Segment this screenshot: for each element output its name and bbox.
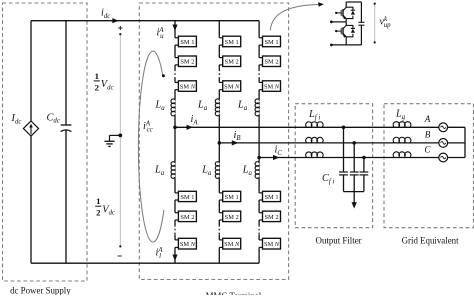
- wire: rail SM2 to SMN upper col 1 (with ellipsis): [174, 65, 176, 70]
- svg-text:SM 1: SM 1: [264, 39, 278, 46]
- current iA arrow: [187, 125, 194, 130]
- inductor La upper arm col 1: [171, 99, 175, 116]
- svg-text:Grid Equivalent: Grid Equivalent: [402, 235, 459, 245]
- node: filter tap phase A: [342, 126, 346, 130]
- diode (antiparallel): [346, 7, 353, 18]
- wire: rail SM2 to SMN upper col 2 (with ellipsis): [218, 65, 220, 70]
- capacitor Cdc branch wires: [65, 21, 67, 125]
- wire: rail between SM1-SM2 upper col 1: [174, 45, 176, 58]
- submodule SMN lower arm col 3: [263, 238, 281, 249]
- inductor Lfi phase A: [306, 122, 323, 128]
- wire: rail SMN to dc bus negative col 2: [218, 247, 220, 263]
- inductor La upper arm col 3: [255, 99, 259, 116]
- submodule SM1 lower arm col 1: [178, 191, 196, 201]
- current iC arrow: [273, 155, 280, 160]
- svg-text:SM 2: SM 2: [225, 59, 239, 66]
- plus sign (top of Vdc measure): [118, 27, 122, 29]
- current source Idc (diamond with up arrow): [23, 121, 38, 136]
- terminal: SM output (mid): [330, 21, 333, 24]
- submodule SMN lower arm col 2: [223, 238, 241, 249]
- svg-text:1: 1: [95, 71, 99, 81]
- wire: phase A line: [175, 126, 439, 128]
- inductor Lfi phase B: [306, 137, 323, 143]
- capacitor Cdc: [61, 124, 72, 126]
- submodule SM1 lower arm col 2: [223, 191, 241, 201]
- wire: rail between SM1-SM2 upper col 2: [218, 45, 220, 58]
- wire: lower inductor to SM1 lower col 2: [218, 178, 220, 193]
- svg-text:B: B: [425, 130, 431, 140]
- capacitor Cfi phase A: [339, 171, 348, 173]
- wire: upper arm rail col 3 (dc bus to SM1): [258, 21, 260, 38]
- wire: source C to neutral bus: [448, 157, 465, 159]
- capacitor Cfi phase B: [350, 171, 359, 173]
- svg-text:SM 1: SM 1: [180, 194, 194, 201]
- minus sign (bottom of Vdc measure): [118, 255, 122, 257]
- current il^A arrow (lower arm col 1): [172, 255, 177, 262]
- wire: rail between SM1-SM2 upper col 3: [258, 45, 260, 58]
- boundary box: Output Filter region: [295, 104, 372, 228]
- inductor La lower arm col 1: [171, 162, 175, 179]
- svg-text:1: 1: [96, 196, 100, 206]
- wire: phase C line: [259, 157, 439, 159]
- wire: lower inductor to SM1 lower col 3: [258, 178, 260, 193]
- wire: phase B line: [219, 142, 438, 144]
- svg-text:SM N: SM N: [180, 83, 196, 90]
- wire: SM detail midpoint node: [345, 19, 347, 26]
- wire: upper arm rail col 2 (dc bus to SM1): [218, 21, 220, 38]
- svg-text:SM N: SM N: [264, 241, 280, 248]
- wire: rail SMN to arm inductor upper col 2: [218, 90, 220, 100]
- node: filter tap phase B: [352, 141, 356, 145]
- svg-text:SM 1: SM 1: [225, 194, 239, 201]
- submodule SM <N upper arm col 2: [223, 81, 241, 92]
- capacitor (SM detail): [358, 21, 364, 23]
- terminal: SM output (bottom): [330, 44, 333, 47]
- submodule SM2 lower arm col 1: [178, 211, 196, 222]
- svg-text:SM 1: SM 1: [264, 194, 278, 201]
- wire: dc bus positive (top): [31, 20, 259, 22]
- current iB arrow: [232, 140, 239, 145]
- svg-text:SM 2: SM 2: [264, 214, 278, 221]
- wire: rail between SM1-SM2 lower col 3: [258, 200, 260, 213]
- svg-text:SM 2: SM 2: [225, 214, 239, 221]
- wire: source A to neutral bus: [448, 126, 465, 128]
- svg-text:SM 2: SM 2: [180, 214, 194, 221]
- wire: tap to capacitor Cfi phase C: [363, 158, 365, 173]
- measurement line v_up (SM detail): [374, 3, 376, 43]
- current source Idc branch wires: [30, 21, 32, 121]
- inductor Lfi phase C: [306, 152, 323, 158]
- wire: dc bus negative (bottom): [31, 262, 259, 264]
- node: filter tap phase C: [362, 156, 366, 160]
- wire: rail SMN to dc bus negative col 3: [258, 247, 260, 263]
- submodule SMN lower arm col 1: [178, 238, 196, 249]
- svg-text:A: A: [424, 114, 431, 124]
- svg-text:SM N: SM N: [224, 241, 240, 248]
- wire: SM detail capacitor branch: [360, 2, 362, 22]
- wire: inductor to phase node col 1: [174, 116, 176, 128]
- submodule SM 22 upper arm col 2: [223, 56, 241, 67]
- capacitor Cfi phase C: [360, 171, 369, 173]
- boundary box: Grid Equivalent region: [384, 104, 474, 228]
- svg-text:SM 1: SM 1: [225, 39, 239, 46]
- svg-text:2: 2: [95, 82, 100, 92]
- submodule SM2 lower arm col 2: [223, 211, 241, 222]
- svg-text:SM N: SM N: [264, 83, 280, 90]
- submodule SM 22 upper arm col 3: [263, 56, 281, 67]
- boundary box: dc Power Supply region: [3, 3, 88, 281]
- diode (antiparallel): [346, 25, 353, 36]
- circulating current icc^A arc: [138, 51, 164, 242]
- wire: inductor to phase node col 3: [258, 116, 260, 158]
- inductor Lg phase A: [393, 122, 411, 128]
- wire: rail SM2 to SMN lower col 3 (with ellipsis): [258, 220, 260, 225]
- wire: source B to neutral bus: [448, 142, 465, 144]
- boundary box: MMC Terminal region: [139, 3, 288, 280]
- node: phase junction col 2: [218, 141, 222, 145]
- current iu^A arrow (upper arm col 1): [172, 25, 177, 32]
- leader arrow from SM1 to submodule detail: [270, 5, 319, 31]
- submodule SM 11 upper arm col 2: [223, 36, 241, 47]
- wire: rail SM2 to SMN upper col 3 (with ellipsis): [258, 65, 260, 70]
- submodule SM 22 upper arm col 1: [178, 56, 196, 67]
- svg-text:dc Power Supply: dc Power Supply: [10, 285, 71, 295]
- wire: SM detail top rail: [346, 1, 361, 3]
- svg-text:SM N: SM N: [180, 241, 196, 248]
- wire: rail between SM1-SM2 lower col 1: [174, 200, 176, 213]
- wire: phase node to lower inductor col 2: [218, 143, 220, 162]
- wire: tap to capacitor Cfi phase B: [353, 143, 355, 172]
- inductor La upper arm col 2: [215, 99, 219, 116]
- measurement line for Vdc halves (light): [119, 34, 121, 248]
- inductor La lower arm col 2: [215, 162, 219, 179]
- submodule SM 11 upper arm col 3: [263, 36, 281, 47]
- wire: rail SM2 to SMN lower col 2 (with ellipsis): [218, 220, 220, 225]
- wire: filter common to ground arrow: [353, 192, 355, 203]
- node: phase junction col 1: [173, 126, 177, 130]
- wire: lower emitter to bottom rail: [345, 37, 347, 45]
- ground arrow (filter star point): [352, 202, 357, 208]
- inductor La lower arm col 3: [255, 162, 259, 179]
- ac source phase A: [439, 123, 448, 132]
- current idc arrow on dc bus: [112, 18, 119, 23]
- svg-text:SM 2: SM 2: [264, 59, 278, 66]
- svg-text:SM 1: SM 1: [180, 39, 194, 46]
- submodule SM <N upper arm col 1: [178, 81, 196, 92]
- wire: grid neutral bus: [464, 127, 466, 157]
- svg-text:MMC Terminal: MMC Terminal: [206, 291, 262, 295]
- wire: phase node to lower inductor col 1: [174, 127, 176, 162]
- IGBT transistor: [343, 7, 346, 11]
- svg-text:C: C: [424, 144, 431, 154]
- wire: capacitor to common bus phase B: [353, 175, 355, 192]
- wire: SM detail bottom rail: [331, 44, 361, 46]
- svg-text:SM N: SM N: [224, 83, 240, 90]
- wire: rail SMN to arm inductor upper col 1: [174, 90, 176, 100]
- wire: capacitor to common bus phase C: [363, 175, 365, 192]
- svg-text:SM 2: SM 2: [180, 59, 194, 66]
- ac source phase C: [439, 153, 448, 162]
- wire: filter capacitor common bus: [344, 191, 364, 193]
- submodule SM2 lower arm col 3: [263, 211, 281, 222]
- node: phase junction col 3: [257, 156, 261, 160]
- wire: rail SMN to arm inductor upper col 3: [258, 90, 260, 100]
- wire: lower inductor to SM1 lower col 1: [174, 178, 176, 193]
- wire: SM detail collector drop: [345, 2, 347, 7]
- wire: upper arm rail col 1 (dc bus to SM1): [174, 21, 176, 38]
- wire: rail SMN to dc bus negative col 1: [174, 247, 176, 263]
- inductor Lg phase C: [393, 152, 411, 158]
- wire: tap to capacitor Cfi phase A: [343, 127, 345, 172]
- submodule SM <N upper arm col 3: [263, 81, 281, 92]
- svg-text:Output Filter: Output Filter: [316, 235, 362, 245]
- wire: inductor to phase node col 2: [218, 116, 220, 143]
- ac source phase B: [439, 139, 448, 148]
- wire: rail SM2 to SMN lower col 1 (with ellipsis): [174, 220, 176, 225]
- IGBT gate terminal: [336, 12, 341, 14]
- svg-text:2: 2: [96, 208, 101, 218]
- ground symbol (dc midpoint): [118, 134, 122, 138]
- IGBT gate terminal: [336, 30, 341, 32]
- submodule SM 11 upper arm col 1: [178, 36, 196, 47]
- IGBT transistor: [343, 25, 346, 29]
- submodule SM1 lower arm col 3: [263, 191, 281, 201]
- wire: capacitor to common bus phase A: [343, 175, 345, 192]
- inductor Lg phase B: [393, 137, 411, 143]
- wire: phase node to lower inductor col 3: [258, 158, 260, 162]
- wire: rail between SM1-SM2 lower col 2: [218, 200, 220, 213]
- svg-text:iAu: iAu: [157, 27, 165, 40]
